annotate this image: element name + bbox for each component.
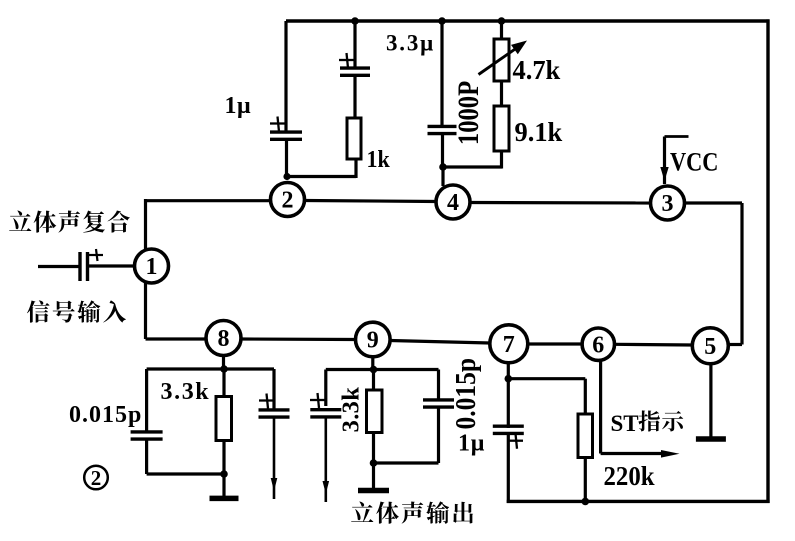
wire <box>147 440 224 475</box>
label 3.3k <box>161 379 211 405</box>
label 9.1k <box>515 117 563 147</box>
junction <box>370 459 378 467</box>
junction <box>220 365 228 373</box>
wire <box>287 158 356 178</box>
svg-text:6: 6 <box>592 332 604 358</box>
pin 3 <box>651 186 685 220</box>
wire <box>441 167 444 186</box>
svg-text:4.7k: 4.7k <box>513 55 561 85</box>
junction <box>498 17 506 25</box>
capacitor C3 1000P <box>428 126 457 133</box>
svg-text:1: 1 <box>146 254 158 280</box>
junction <box>582 498 590 506</box>
wire <box>500 151 503 169</box>
wire <box>144 199 147 251</box>
pin 1 <box>135 249 169 283</box>
wire <box>500 81 503 107</box>
arrow to other channel <box>323 481 330 494</box>
pin 5 <box>692 328 728 364</box>
resistor R4 3.3k <box>216 397 232 441</box>
wire <box>38 265 80 268</box>
wire <box>371 357 374 370</box>
wire <box>508 377 585 380</box>
wire <box>222 369 225 397</box>
wire <box>685 203 742 345</box>
wire <box>241 337 356 341</box>
pin 8 <box>206 321 241 356</box>
svg-text:1000P: 1000P <box>452 81 485 145</box>
label 0.015p <box>69 402 142 428</box>
electrolytic capacitor 1μ <box>493 426 524 449</box>
wire <box>305 201 437 202</box>
wire <box>441 134 444 167</box>
svg-text:3: 3 <box>662 191 674 217</box>
svg-text:3.3k: 3.3k <box>338 387 365 433</box>
wire <box>147 367 274 370</box>
wire <box>146 282 207 340</box>
wire <box>437 370 440 400</box>
wire <box>440 21 443 127</box>
svg-text:0.015p: 0.015p <box>69 402 142 428</box>
label 1μ <box>458 431 485 457</box>
resistor R5 3.3k <box>367 390 383 433</box>
wire top rail <box>286 19 770 23</box>
wire <box>500 21 503 40</box>
svg-text:1μ: 1μ <box>225 93 252 119</box>
wire right rail <box>766 19 769 503</box>
svg-text:1k: 1k <box>367 145 390 172</box>
svg-text:8: 8 <box>218 326 230 352</box>
resistor R1 1k <box>347 118 361 159</box>
svg-text:4: 4 <box>447 190 459 216</box>
wire <box>615 343 693 347</box>
wire <box>272 369 275 411</box>
variable resistor R2 4.7k <box>479 39 528 81</box>
label 1μ <box>225 93 252 119</box>
figure label ② <box>84 466 108 490</box>
svg-text:1μ: 1μ <box>458 431 485 457</box>
label 0.015p rotated <box>450 358 482 430</box>
capacitor C1 1μ <box>270 117 302 140</box>
svg-text:3.3μ: 3.3μ <box>386 31 435 56</box>
svg-text:9: 9 <box>367 328 379 354</box>
svg-text:2: 2 <box>91 466 102 490</box>
pin 6 <box>582 328 614 360</box>
junction <box>220 470 228 478</box>
junction <box>283 173 290 180</box>
wire <box>89 264 136 267</box>
junction <box>351 17 359 25</box>
wire <box>146 199 272 202</box>
wire <box>273 417 276 499</box>
wire <box>222 440 225 474</box>
svg-text:9.1k: 9.1k <box>515 117 563 147</box>
pin 7 <box>490 325 528 363</box>
label ST指示 <box>611 410 684 435</box>
ground <box>358 463 389 491</box>
wire <box>374 408 439 464</box>
wire <box>324 417 327 502</box>
wire <box>145 369 148 432</box>
wire <box>443 165 502 168</box>
label 立体声复合 <box>9 210 130 232</box>
label VCC <box>670 148 718 177</box>
wire bottom rail <box>507 500 770 503</box>
wire <box>372 432 375 463</box>
junction <box>505 375 513 383</box>
wire <box>285 140 288 177</box>
label 信号输入 <box>27 300 126 322</box>
svg-text:3.3k: 3.3k <box>161 379 211 405</box>
wire <box>353 75 356 118</box>
wire <box>353 21 356 68</box>
pin 9 <box>356 322 391 357</box>
label 4.7k <box>513 55 561 85</box>
label 立体声输出 <box>351 501 473 523</box>
resistor R3 9.1k <box>494 106 509 151</box>
wire <box>507 363 510 379</box>
junction <box>438 17 446 25</box>
pin 2 <box>271 183 305 217</box>
arrow to other channel <box>271 478 278 491</box>
wire <box>584 458 587 502</box>
electrolytic capacitor <box>310 393 341 417</box>
label 1000P <box>452 81 485 145</box>
resistor R6 220k <box>578 414 593 458</box>
electrolytic capacitor <box>259 394 290 418</box>
svg-text:2: 2 <box>282 188 294 214</box>
ground <box>696 364 726 439</box>
label 3.3μ <box>386 31 435 56</box>
wire <box>507 435 510 503</box>
wire <box>284 21 287 133</box>
input capacitor <box>80 249 103 281</box>
wire <box>528 342 583 345</box>
svg-text:5: 5 <box>704 334 716 360</box>
junction <box>439 163 447 171</box>
capacitor C4 0.015p <box>131 432 163 439</box>
label 220k <box>604 461 656 491</box>
svg-text:0.015p: 0.015p <box>450 358 482 430</box>
capacitor C2 3.3μ <box>339 53 370 75</box>
svg-text:ST: ST <box>611 411 639 436</box>
wire <box>471 201 651 205</box>
label 3.3k rotated <box>338 387 365 433</box>
wire <box>324 370 327 407</box>
capacitor C5 0.015p <box>423 400 454 407</box>
svg-text:7: 7 <box>503 332 515 358</box>
wire <box>326 368 439 371</box>
junction <box>370 366 378 374</box>
svg-text:220k: 220k <box>604 461 656 491</box>
wire <box>390 341 490 344</box>
ST indicator output <box>601 360 680 458</box>
VCC supply <box>660 137 688 185</box>
wire <box>222 355 225 369</box>
pin 4 <box>436 185 470 219</box>
ground <box>210 474 239 498</box>
svg-text:VCC: VCC <box>670 148 718 177</box>
label 1k <box>367 145 390 172</box>
wire <box>584 379 587 415</box>
wire <box>507 379 510 428</box>
wire <box>372 370 375 391</box>
